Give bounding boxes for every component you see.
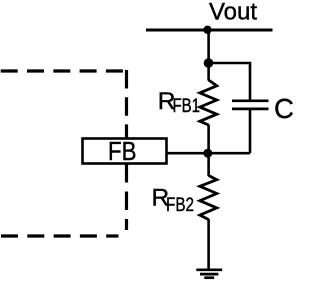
svg-text:FB1: FB1	[173, 96, 201, 117]
svg-text:Vout: Vout	[209, 0, 257, 26]
svg-text:FB2: FB2	[166, 195, 194, 216]
svg-text:C: C	[274, 93, 293, 124]
svg-text:FB: FB	[108, 136, 137, 166]
